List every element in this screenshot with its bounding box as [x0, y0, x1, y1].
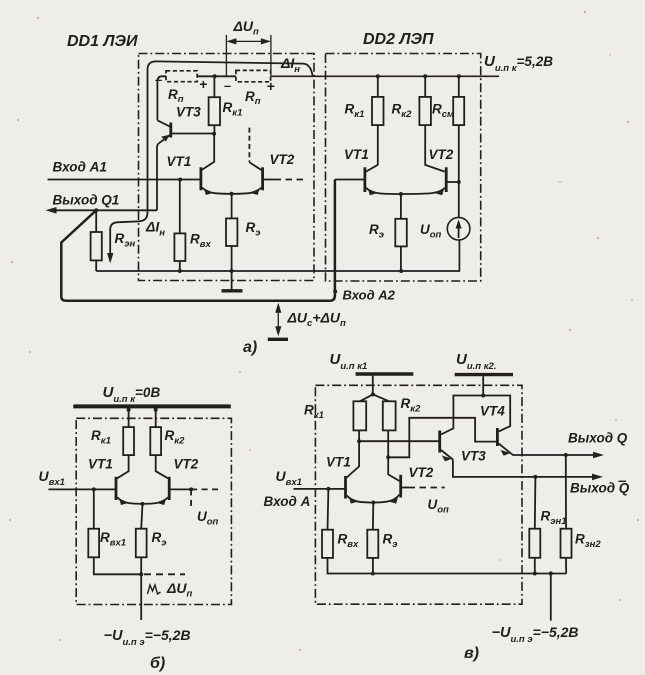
svg-text:Вход А: Вход А [264, 494, 311, 509]
transistor VT3 [438, 431, 441, 453]
svg-text:VT4: VT4 [480, 404, 505, 419]
svg-text:Вход А1: Вход А1 [53, 160, 107, 175]
supply bar 0V [73, 404, 231, 408]
dUc arrow [277, 306, 279, 334]
svg-text:VT2: VT2 [429, 147, 454, 162]
transistor VT1 [115, 477, 118, 500]
VT2 base dashed + Uop [402, 487, 409, 489]
node: common emitter [141, 502, 145, 506]
svg-text:а): а) [243, 339, 257, 356]
svg-text:VT1: VT1 [167, 154, 192, 169]
svg-text:DD1 ЛЭИ: DD1 ЛЭИ [67, 33, 138, 50]
output Q-bar arrow [533, 475, 537, 479]
node: common emitter DD2 [399, 192, 403, 196]
resistor Re [372, 503, 374, 530]
wire: Rk1 node to VT3 base [359, 440, 438, 442]
resistor Rk2 [383, 401, 396, 430]
wire: output feedback loop to DD2 input [61, 180, 335, 301]
resistor Rk1 [123, 427, 134, 455]
svg-text:Вход А2: Вход А2 [343, 288, 396, 303]
svg-text:–: – [155, 72, 162, 87]
node: Rk2 bottom [386, 455, 390, 459]
svg-text:VT2: VT2 [409, 465, 434, 480]
wire: VT3 emitter to output Q-bar [453, 460, 595, 477]
supply bar 2 [455, 373, 513, 376]
resistor Rk1 [353, 401, 366, 430]
wire: VT1 collector [347, 441, 359, 477]
svg-text:Выход Q1: Выход Q1 [53, 193, 120, 208]
svg-text:+: + [199, 76, 207, 92]
resistor Rvx1 [93, 489, 95, 528]
svg-text:VT1: VT1 [88, 457, 113, 472]
dUp dimension arrow [228, 40, 270, 42]
transistor VT4 [496, 428, 499, 446]
wire: supply 1 drop + split [372, 376, 374, 395]
resistor Rk2 [150, 427, 161, 455]
node: Re bottom junction [139, 572, 143, 576]
node: Rk1 bottom dot [212, 132, 216, 136]
wire: rail right of second Rp to supply terminal [271, 75, 499, 77]
transistor VT1 DD1 [199, 167, 202, 190]
resistor Ren1 [534, 477, 537, 529]
svg-text:VT3: VT3 [461, 449, 486, 464]
DD2: resistor Re [400, 194, 402, 219]
wire: rail between Rp resistors [197, 75, 236, 77]
noise squiggle [148, 585, 161, 594]
DD2: resistor Rk2 [423, 74, 427, 78]
resistor Rk1 DD1 [213, 76, 215, 97]
transistor VT2 DD1 [261, 167, 264, 190]
node + wire to -Uipe [549, 571, 553, 575]
output Q arrow [564, 453, 568, 457]
wire VT3 emitter to output line [157, 144, 158, 211]
resistor Rzn2 [565, 455, 567, 529]
DD2 dash-dot box [326, 54, 481, 282]
node: supply 2 drop [482, 376, 484, 395]
svg-text:+: + [267, 78, 275, 94]
DD1 dash-dot box [139, 54, 315, 281]
svg-text:DD2 ЛЭП: DD2 ЛЭП [363, 31, 434, 48]
svg-text:б): б) [150, 655, 165, 672]
resistor Rp2 (dashed, parasitic) [236, 70, 271, 81]
dIn annotation wire (load current path over the top) [110, 61, 312, 255]
svg-text:VT2: VT2 [174, 457, 199, 472]
transistor VT3 [169, 123, 172, 138]
svg-text:в): в) [464, 645, 479, 662]
wire: top rail left corner + VT3 collector drop [157, 76, 166, 120]
node: rail junction dot Rk1 [213, 74, 217, 78]
svg-text:Выход Q: Выход Q [570, 481, 630, 496]
supply bar 1 [356, 372, 414, 375]
svg-text:VT1: VT1 [326, 455, 351, 470]
svg-text:VT2: VT2 [270, 152, 295, 167]
resistor Ren [95, 210, 97, 232]
DD2: transistor VT1 [363, 167, 366, 192]
dashed noise line [144, 573, 185, 575]
node: common emitter DD1 [230, 192, 234, 196]
transistor VT1 [344, 476, 347, 499]
current source DD2 [447, 217, 470, 240]
resistor Rp1 (dashed, parasitic) [166, 71, 197, 82]
svg-text:VT1: VT1 [344, 147, 369, 162]
ground DD1 [231, 271, 233, 290]
transistor VT2 [168, 477, 171, 500]
svg-text:VT3: VT3 [176, 105, 201, 120]
VT2 base wire + Uop [171, 488, 192, 490]
dash-dot box [315, 385, 522, 604]
resistor Re [141, 504, 142, 529]
resistor Re DD1 [231, 194, 233, 219]
wire: Rk1 drop from bar [128, 406, 130, 427]
resistor Rvx [327, 489, 330, 530]
wire: Rk2 drop from bar [155, 406, 157, 427]
node: common emitter [371, 501, 375, 505]
dIn annotation arrowhead [107, 253, 113, 264]
svg-text:Выход Q: Выход Q [568, 431, 628, 446]
terminal bar [268, 338, 288, 341]
DD2: transistor VT2 [445, 167, 448, 192]
wire: VT2 collector [388, 457, 399, 481]
DD2: resistor Rsm [457, 74, 461, 78]
wire: VT4 emitter to output Q [511, 454, 595, 455]
DD2: resistor Rk1 [376, 74, 380, 78]
wire: Rk2 node staircase to VT4 base [388, 418, 496, 458]
node: Rk1 bottom [357, 439, 361, 443]
transistor VT2 [399, 475, 402, 498]
resistor Rvx DD1 [179, 180, 181, 234]
dUp dimension ticks [225, 35, 227, 76]
svg-text:–: – [224, 78, 231, 93]
wire: bottom rail [96, 240, 459, 271]
dash-dot box [76, 418, 231, 604]
